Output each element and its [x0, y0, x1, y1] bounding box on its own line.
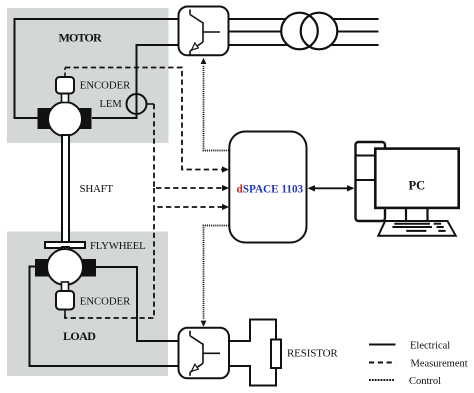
wire: load generator phase B to converter U2: [91, 267, 179, 341]
load machine body: [47, 249, 83, 285]
svg-text:Measurement: Measurement: [411, 359, 468, 370]
transistor symbol inside U2: [189, 331, 191, 336]
converter U1 (motor-side inverter): [179, 7, 229, 56]
load machine stator blocks: [35, 259, 52, 277]
resistor R1 body: [271, 340, 281, 369]
control wire: dSPACE to converter U1: [201, 58, 229, 151]
wire: load generator phase A to converter U2 (left loop): [30, 267, 179, 367]
svg-text:LEM: LEM: [100, 99, 123, 110]
flywheel disc: [45, 242, 85, 248]
LEM current sensor: [127, 94, 147, 114]
wire: three-phase line 3 converter U1 to grid: [229, 44, 379, 46]
wire: converter U2 to resistor top branch: [229, 320, 276, 342]
wire: three-phase line 1 converter U1 to grid: [229, 18, 379, 20]
svg-text:LOAD: LOAD: [63, 329, 96, 343]
measurement wire: encoder E2 to dSPACE: [65, 204, 229, 318]
PC monitor: [375, 149, 458, 208]
encoder E2 body: [56, 291, 74, 310]
encoder E2 bottom pin: [64, 310, 66, 316]
dSPACE 1103 controller block: [229, 132, 306, 243]
PC tower case: [356, 142, 386, 221]
junction: vertical dashed bus at x=154: [153, 188, 155, 207]
PC keyboard: [378, 221, 455, 236]
encoder E2 stem: [62, 282, 69, 291]
motor M1 stator blocks: [38, 108, 54, 129]
encoder E1 stem: [62, 94, 69, 103]
svg-text:RESISTOR: RESISTOR: [287, 348, 338, 360]
transformer T1: [281, 13, 337, 50]
svg-text:SHAFT: SHAFT: [80, 183, 114, 195]
transistor symbol inside U1: [189, 10, 191, 15]
measurement wire: LEM to dSPACE: [154, 104, 229, 191]
flywheel stem: [62, 247, 69, 253]
svg-text:Electrical: Electrical: [410, 340, 450, 351]
svg-text:PC: PC: [409, 179, 426, 193]
shaft coupling rod: [62, 135, 69, 243]
wire: converter U2 to resistor bottom branch: [229, 366, 276, 386]
converter U2 (load-side chopper): [179, 328, 230, 379]
PC monitor stand: [406, 208, 428, 220]
svg-text:MOTOR: MOTOR: [59, 31, 103, 45]
svg-text:Control: Control: [409, 376, 441, 387]
svg-text:FLYWHEEL: FLYWHEEL: [90, 240, 146, 252]
measurement wire: encoder E1 to dSPACE: [65, 68, 229, 173]
legend: electrical line sample: [369, 344, 396, 346]
encoder E1 top pin: [64, 73, 66, 78]
svg-text:ENCODER: ENCODER: [80, 79, 131, 91]
motor bay shaded area: [7, 8, 169, 143]
wire: motor phase A to converter U1 (left loop): [15, 19, 179, 118]
electrical link: dSPACE to PC (double arrow): [308, 185, 355, 191]
load bay shaded area: [7, 232, 168, 377]
control wire: dSPACE to converter U2: [201, 226, 229, 327]
legend: control line sample: [369, 379, 395, 381]
legend: measurement line sample: [369, 362, 396, 364]
wire: motor phase B through LEM to converter U1: [92, 45, 178, 118]
wire: three-phase line 2 converter U1 to grid: [229, 31, 379, 33]
motor M1 body: [48, 102, 82, 136]
LEM output stub: [146, 103, 155, 105]
encoder E1 body: [56, 77, 74, 94]
svg-text:ENCODER: ENCODER: [80, 296, 131, 308]
svg-text:dSPACE 1103: dSPACE 1103: [237, 183, 304, 195]
